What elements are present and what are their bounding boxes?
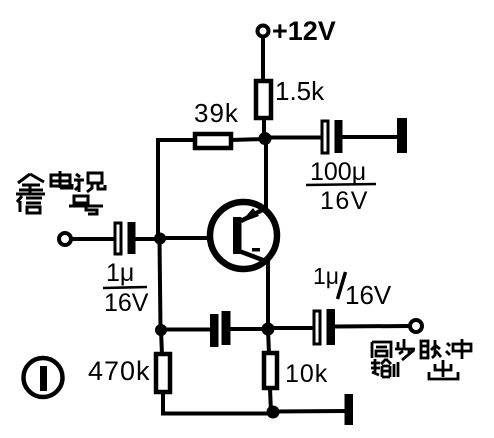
node collector [259,132,272,145]
svg-text:10k: 10k [285,360,328,388]
resistor 470k [88,354,170,392]
wire R1 to collector node [262,118,266,140]
wire collector vertical [264,139,268,210]
wire C1 to base node [135,237,160,241]
svg-text:100μ: 100μ [310,158,366,186]
label sync pulse output (CJK drawn) [371,339,471,379]
wire bottom node to 470k [161,330,162,355]
svg-text:39k: 39k [194,98,239,128]
resistor 39k [194,98,239,148]
wire base node to transistor [160,236,210,240]
capacitor C3 [210,311,231,347]
resistor 10k [264,353,328,388]
wire bottom rail to ground bar [273,409,346,414]
terminal input [59,233,71,245]
wire 39k to collector node [231,139,265,140]
wire corner to 39k [158,140,196,238]
svg-text:16V: 16V [345,280,392,310]
capacitor C2 100u/16V [306,120,376,215]
resistor 1.5k [256,76,325,118]
svg-text:+12V: +12V [272,16,336,46]
node bottom left [155,324,167,336]
svg-text:16V: 16V [104,289,149,317]
wire emitter vertical [266,260,270,330]
wire C4 to output terminal [335,324,410,329]
wire node to C3 [161,328,211,332]
wire C3 to emitter node [230,327,268,331]
circled figure number 1 [24,358,63,397]
node emitter [262,323,275,336]
svg-text:470k: 470k [88,356,151,386]
ground bar bottom right [345,394,354,425]
terminal +12V [258,16,336,46]
wire supply to R1 [261,37,265,82]
capacitor C1 1u/16V input [103,222,149,317]
svg-text:1μ: 1μ [106,259,134,287]
terminal bar top right [397,118,407,153]
wire C2 to terminal bar [342,135,398,139]
label composite video signal (CJK drawn) [16,171,105,214]
wire collector node to C2 [265,136,322,140]
wire left vertical base to bottom node [160,239,161,330]
node base [154,233,166,245]
capacitor C4 1u/16V output [313,263,392,345]
svg-text:16V: 16V [320,187,369,215]
wire input to C1 [71,237,115,241]
wire emitter node to C4 [268,326,314,330]
transistor Q1 [210,202,277,269]
node bottom rail [267,406,280,419]
wire 10k to bottom rail [270,388,271,413]
svg-text:1.5k: 1.5k [275,76,325,106]
wire 470k to bottom rail [163,392,273,414]
svg-text:1μ: 1μ [313,263,339,289]
terminal output [410,320,422,332]
wire emitter node to 10k [268,329,269,354]
